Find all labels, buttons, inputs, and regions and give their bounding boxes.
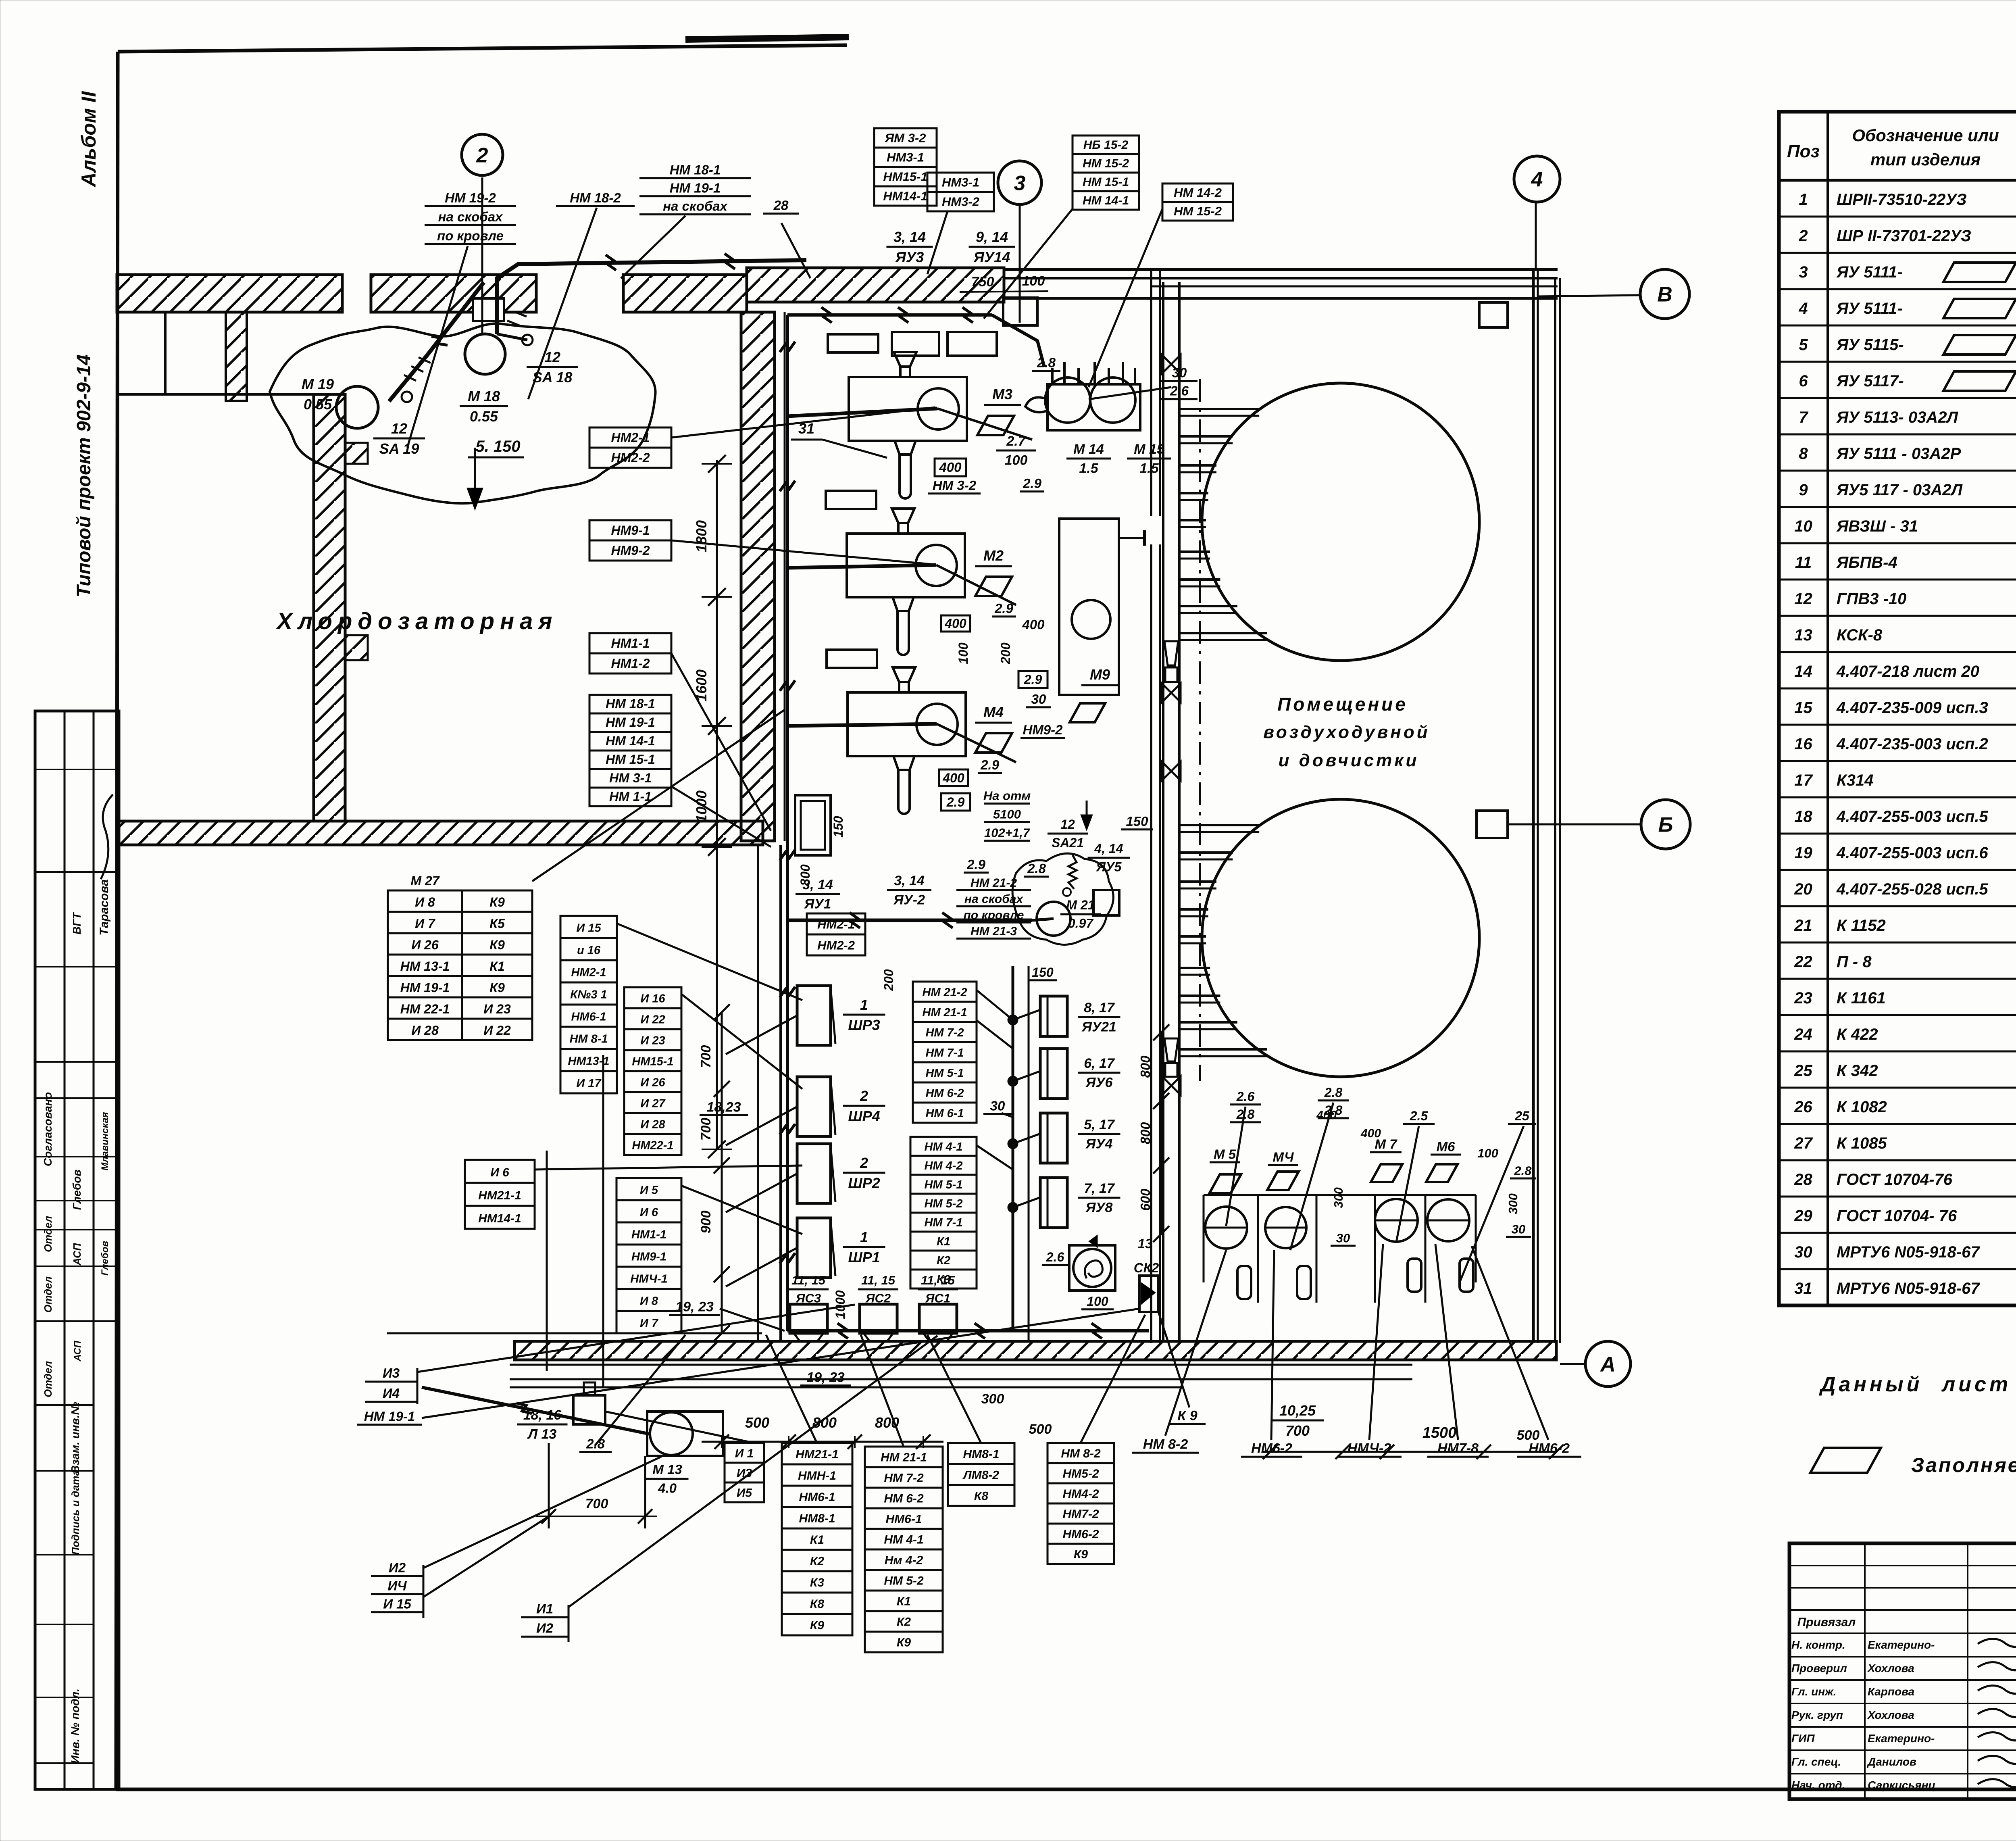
svg-text:НМ 1-1: НМ 1-1 (609, 789, 652, 804)
svg-text:НМ2-1: НМ2-1 (611, 430, 650, 445)
svg-text:Подпись и дата: Подпись и дата (69, 1470, 81, 1555)
svg-text:НМ 21-1: НМ 21-1 (881, 1451, 927, 1464)
label stack stackD (1048, 1443, 1114, 1564)
svg-text:К 1082: К 1082 (1837, 1098, 1887, 1116)
label stack 18,23 (700, 1099, 748, 1115)
cabinet ШР4 (797, 1077, 835, 1136)
label stack НМ21-2 stack (956, 876, 1031, 938)
tank 2 (1202, 799, 1479, 1077)
svg-text:22: 22 (1794, 953, 1812, 971)
wall pier leg 1 (226, 312, 247, 401)
svg-text:700: 700 (698, 1045, 714, 1068)
svg-text:2.6: 2.6 (1046, 1250, 1064, 1264)
label stack НМ7-2 s (1427, 1441, 1489, 1457)
svg-text:1800: 1800 (693, 520, 710, 553)
svg-text:ЯУ-2: ЯУ-2 (893, 892, 925, 908)
svg-text:400: 400 (1360, 1127, 1381, 1140)
fan M19 (336, 386, 378, 428)
svg-text:НМ 14-1: НМ 14-1 (606, 734, 655, 748)
label stack НМ14-2 top (1162, 183, 1233, 221)
pump М7 (1375, 1199, 1421, 1292)
label 3,14 ЯУ1 (796, 877, 840, 912)
label stack Н16 stack (624, 987, 681, 1155)
dims 10,25 700 300 1500 500 (981, 1391, 1564, 1459)
long leader lines bottom left (417, 1305, 1139, 1607)
leader to ШР3 (726, 1015, 797, 1054)
label stack НМЧ-2 s (1337, 1441, 1402, 1457)
svg-text:100: 100 (956, 642, 971, 664)
label stack И2 ИЧ И15 stack (371, 1560, 423, 1612)
В wall box and leader (1479, 295, 1640, 327)
svg-text:ЯУ14: ЯУ14 (973, 249, 1010, 265)
svg-text:НМ 8-2: НМ 8-2 (1143, 1437, 1188, 1452)
svg-text:И 1: И 1 (735, 1447, 754, 1460)
svg-text:Н. контр.: Н. контр. (1791, 1639, 1845, 1651)
two-column table М27/К9 (388, 874, 532, 1040)
cable tray along top wall (787, 307, 1044, 367)
pump M9 (1059, 519, 1145, 695)
svg-text:НМ 7-1: НМ 7-1 (925, 1047, 964, 1059)
title block (1789, 1543, 2016, 1799)
svg-text:ГПВ3 -10: ГПВ3 -10 (1837, 590, 1906, 608)
svg-text:ШР4: ШР4 (848, 1108, 880, 1124)
label stack 28d (1510, 1164, 1536, 1178)
label stack НМ18-2 (556, 190, 635, 206)
svg-text:И 26: И 26 (411, 938, 439, 952)
svg-text:13: 13 (1794, 626, 1812, 644)
svg-text:И 6: И 6 (640, 1206, 658, 1219)
svg-text:Саркисьянц: Саркисьянц (1868, 1779, 1936, 1791)
svg-text:И 17: И 17 (576, 1077, 602, 1090)
label 2.9 box (1018, 671, 1048, 688)
riser cable pair (1008, 966, 1040, 1341)
svg-text:И2: И2 (389, 1560, 406, 1575)
svg-text:НМ 18-2: НМ 18-2 (570, 190, 621, 205)
connection box СК2 (1134, 1236, 1159, 1312)
wall connector line (118, 393, 314, 396)
svg-text:АСП: АСП (71, 1243, 83, 1266)
svg-text:10: 10 (1794, 517, 1812, 535)
label stack Н5 stack (616, 1178, 681, 1333)
svg-text:МРТУ6 N05-918-67: МРТУ6 N05-918-67 (1837, 1243, 1980, 1261)
svg-text:Заполняется при привязке: Заполняется при привязке (1911, 1454, 2016, 1476)
svg-text:Данилов: Данилов (1867, 1756, 1916, 1768)
svg-text:ЛМ8-2: ЛМ8-2 (962, 1468, 999, 1482)
svg-text:800: 800 (798, 864, 812, 886)
svg-text:НМ6-2: НМ6-2 (1251, 1441, 1292, 1456)
label stack 29a (992, 601, 1016, 617)
svg-text:2.9: 2.9 (946, 795, 965, 809)
svg-text:НМ15-1: НМ15-1 (883, 170, 927, 184)
svg-text:2: 2 (476, 144, 488, 167)
svg-text:НМ21-1: НМ21-1 (478, 1189, 521, 1202)
svg-text:14: 14 (1794, 663, 1812, 680)
svg-text:Карпова: Карпова (1868, 1685, 1914, 1698)
svg-text:НМ8-1: НМ8-1 (799, 1512, 835, 1525)
axis mark 3 (998, 161, 1041, 204)
svg-text:11, 15: 11, 15 (791, 1273, 826, 1287)
label ЯС2 (858, 1273, 898, 1305)
foundation lines below bottom wall (387, 1055, 1412, 1387)
axis 4 leader (1535, 202, 1537, 269)
label stack stackE НМ21-2 (913, 982, 977, 1123)
svg-text:НМ 5-2: НМ 5-2 (884, 1574, 924, 1588)
svg-text:НМ 3-2: НМ 3-2 (933, 478, 977, 493)
room label Помещение воздуходувной и довчистки (1263, 694, 1430, 770)
svg-text:ЯУ 5115-: ЯУ 5115- (1836, 336, 1904, 354)
svg-text:И4: И4 (383, 1386, 400, 1401)
pgrams bottom pumps (1210, 1174, 1241, 1193)
label М19 0.55 (294, 376, 342, 413)
label stack М5lbl (1210, 1147, 1240, 1162)
label stack К9 s (1169, 1408, 1206, 1424)
svg-text:28: 28 (773, 198, 789, 213)
svg-text:НМ 21-3: НМ 21-3 (971, 925, 1017, 938)
svg-text:4.0: 4.0 (658, 1481, 677, 1496)
svg-text:10,25: 10,25 (1279, 1402, 1316, 1419)
spring symbol (1068, 855, 1077, 889)
svg-text:13: 13 (1138, 1236, 1153, 1251)
label stack И1 И2 stack (521, 1601, 569, 1637)
label stack 30c (1331, 1231, 1356, 1246)
svg-text:и 16: и 16 (577, 944, 601, 957)
label 400 box b (939, 769, 968, 786)
svg-text:АСП: АСП (72, 1341, 83, 1361)
svg-text:М 18: М 18 (468, 388, 500, 404)
svg-text:Поз: Поз (1787, 142, 1820, 161)
pump М4b (1265, 1207, 1311, 1299)
svg-text:300: 300 (981, 1391, 1004, 1407)
svg-text:8: 8 (1799, 445, 1808, 463)
svg-text:М 5: М 5 (1214, 1147, 1236, 1162)
svg-text:НМЧ-2: НМЧ-2 (1347, 1441, 1391, 1456)
svg-text:НМЧ-1: НМЧ-1 (630, 1273, 668, 1286)
svg-text:5100: 5100 (993, 807, 1021, 821)
control cabinet ЯУ4 (1040, 1113, 1067, 1163)
svg-text:3: 3 (1799, 263, 1808, 281)
svg-text:И 22: И 22 (640, 1013, 665, 1026)
svg-text:Гл. инж.: Гл. инж. (1791, 1685, 1837, 1698)
label ШР1 (843, 1229, 885, 1266)
svg-text:НМ 15-2: НМ 15-2 (1083, 157, 1129, 170)
svg-text:400: 400 (1022, 617, 1045, 632)
svg-text:Гл. спец.: Гл. спец. (1791, 1756, 1841, 1768)
svg-text:31: 31 (798, 420, 814, 437)
svg-text:500: 500 (745, 1414, 769, 1431)
cable along bottom wall (787, 1323, 1149, 1339)
wall: left wall of chlorine room (314, 394, 345, 821)
svg-text:Млавинская: Млавинская (100, 1112, 110, 1170)
svg-text:2.7: 2.7 (1006, 434, 1026, 449)
svg-text:2.8: 2.8 (1514, 1164, 1532, 1178)
control cabinet ЯУ8 (1040, 1178, 1067, 1228)
label stack На отм 5100 (983, 788, 1031, 840)
svg-text:К1: К1 (897, 1595, 911, 1608)
label 3,14 ЯУЗ (887, 229, 933, 265)
svg-text:НМ7-8: НМ7-8 (1437, 1441, 1479, 1456)
svg-text:5: 5 (1799, 336, 1808, 354)
legend parallelogram (1810, 1448, 1881, 1473)
svg-text:М6: М6 (1437, 1139, 1455, 1154)
svg-text:1600: 1600 (693, 669, 710, 702)
svg-text:НМ 18-1: НМ 18-1 (670, 163, 721, 177)
svg-text:НМ22-1: НМ22-1 (632, 1139, 673, 1152)
svg-text:6, 17: 6, 17 (1084, 1056, 1115, 1071)
label М15 1.5 (1127, 442, 1171, 476)
svg-text:И 7: И 7 (640, 1317, 659, 1330)
leaders from bottom stacks (766, 1244, 1548, 1447)
svg-text:Инв. № подл.: Инв. № подл. (69, 1689, 81, 1764)
svg-text:НМ 6-2: НМ 6-2 (884, 1492, 924, 1505)
svg-text:1500: 1500 (1422, 1424, 1457, 1441)
svg-text:НМ8-1: НМ8-1 (963, 1447, 999, 1461)
leader to ШР1 (726, 1248, 797, 1286)
label stack stackC (948, 1443, 1014, 1506)
svg-text:НМ3-1: НМ3-1 (942, 175, 979, 190)
svg-text:К5: К5 (489, 916, 505, 931)
dimension chain 700 700 900 (698, 1004, 730, 1341)
arrow down 5100 (1081, 801, 1093, 831)
svg-text:Глебов: Глебов (71, 1170, 83, 1210)
sheet frame left border (116, 52, 118, 1789)
label 400 (935, 459, 966, 476)
svg-text:4: 4 (1798, 300, 1808, 317)
label ШР2 (843, 1155, 885, 1191)
small box (1093, 890, 1119, 915)
svg-text:Нм 4-2: Нм 4-2 (885, 1554, 923, 1567)
leader 30/26 (1089, 387, 1171, 399)
blower pumps М14 М15 (1025, 362, 1140, 430)
svg-text:И1: И1 (536, 1601, 553, 1616)
axis mark 2 (462, 134, 503, 175)
svg-text:А: А (1599, 1353, 1616, 1376)
svg-text:НМ2-1: НМ2-1 (817, 917, 855, 931)
label stack НМБ-2 s (1241, 1441, 1302, 1457)
sheet frame top border (partial) (118, 45, 847, 52)
svg-text:SA21: SA21 (1052, 836, 1084, 850)
svg-text:НМ1-1: НМ1-1 (611, 636, 650, 651)
pump М13 (647, 1412, 723, 1456)
svg-text:И2: И2 (536, 1621, 554, 1636)
svg-text:3, 14: 3, 14 (894, 873, 925, 888)
svg-text:800: 800 (875, 1414, 899, 1431)
svg-text:И 28: И 28 (411, 1023, 439, 1038)
svg-text:100: 100 (1477, 1146, 1498, 1160)
svg-text:МЧ: МЧ (1272, 1150, 1294, 1165)
svg-text:1: 1 (1799, 191, 1808, 208)
svg-text:15: 15 (1794, 699, 1812, 717)
svg-text:К 9: К 9 (1177, 1408, 1197, 1423)
label stack НМ19-1 s (357, 1409, 422, 1424)
label ЯУ21 (1078, 1000, 1120, 1035)
label stack И3 И4 (365, 1366, 417, 1402)
pump unit М2 (820, 491, 965, 655)
axis mark В (1640, 269, 1689, 319)
svg-text:НМ 7-1: НМ 7-1 (924, 1216, 962, 1229)
svg-text:НМ 15-1: НМ 15-1 (606, 752, 655, 767)
svg-text:ЯУ 5111-: ЯУ 5111- (1836, 263, 1903, 281)
power box ЯС3 (790, 1304, 827, 1341)
svg-text:СК2: СК2 (1134, 1260, 1159, 1275)
svg-text:ЯУ3: ЯУ3 (895, 249, 924, 265)
wall: bottom band of chlorine room (117, 821, 763, 845)
label stack 19,23c (669, 1299, 720, 1315)
svg-text:ЯУ 5117-: ЯУ 5117- (1836, 372, 1904, 390)
svg-text:16: 16 (1794, 735, 1812, 753)
svg-text:К314: К314 (1837, 771, 1873, 789)
svg-text:К3: К3 (810, 1576, 824, 1589)
vertical dimension chain 1800 1600 1000 (693, 455, 732, 1158)
label stack НМ8-2 s (1132, 1437, 1199, 1453)
svg-text:700: 700 (1285, 1422, 1310, 1439)
label 2.7/100 (996, 434, 1036, 468)
label stack 29b (978, 757, 1002, 773)
power box ЯС1 (919, 1304, 957, 1341)
label ЯС1 (918, 1273, 958, 1305)
svg-text:НМ14-1: НМ14-1 (883, 189, 927, 203)
svg-text:150: 150 (1126, 814, 1148, 829)
svg-text:4, 14: 4, 14 (1094, 841, 1123, 856)
label stack 2.8b (1032, 355, 1060, 371)
label stack 19,23b (800, 1370, 851, 1385)
pump М6 (1427, 1199, 1473, 1292)
svg-text:Екатерино-: Екатерино- (1868, 1639, 1935, 1651)
dark scan segment on top border (685, 37, 849, 40)
label stack НМ1-1 НМ1-2 (589, 633, 671, 673)
svg-text:0.55: 0.55 (304, 396, 332, 413)
svg-text:Отдел: Отдел (42, 1276, 54, 1313)
svg-text:2: 2 (860, 1088, 868, 1104)
svg-text:НМ 4-1: НМ 4-1 (884, 1533, 923, 1547)
svg-text:И 26: И 26 (640, 1076, 665, 1089)
label 10,25 700 (1271, 1402, 1324, 1439)
svg-text:НМ 8-1: НМ 8-1 (569, 1033, 608, 1046)
svg-text:Б: Б (1658, 813, 1673, 837)
svg-text:26: 26 (1794, 1098, 1812, 1116)
svg-text:К 1161: К 1161 (1837, 989, 1886, 1007)
svg-text:4.407-235-003 исп.2: 4.407-235-003 исп.2 (1836, 735, 1988, 753)
air main pipe (1162, 282, 1181, 1341)
svg-text:2.8: 2.8 (1324, 1085, 1343, 1100)
svg-text:НМ 13-1: НМ 13-1 (400, 959, 450, 974)
svg-text:НМ 21-2: НМ 21-2 (971, 876, 1017, 890)
svg-text:К8: К8 (810, 1597, 824, 1611)
svg-text:400: 400 (944, 616, 966, 631)
svg-text:12: 12 (391, 420, 407, 437)
label ШР4 (843, 1088, 885, 1124)
wall: blower room top band (1004, 269, 1558, 298)
label М14 1.5 (1066, 442, 1111, 476)
label М3 (984, 386, 1021, 405)
label stack НМ2-1 НМ2-2 b (807, 913, 865, 955)
svg-text:по кровле: по кровле (437, 228, 504, 243)
svg-text:4.407-218 лист 20: 4.407-218 лист 20 (1836, 663, 1979, 680)
label 12 SA18 (527, 349, 578, 386)
label stack stackB (865, 1447, 943, 1652)
svg-text:Тарасова: Тарасова (98, 879, 111, 935)
svg-text:И 23: И 23 (640, 1034, 665, 1047)
svg-text:Рук. груп: Рук. груп (1791, 1709, 1843, 1721)
svg-text:600: 600 (1138, 1188, 1153, 1211)
pump М21 cloud (1012, 853, 1113, 944)
svg-text:30: 30 (1512, 1222, 1525, 1236)
svg-text:НМ6-2: НМ6-2 (1529, 1441, 1570, 1456)
svg-text:НМ13-1: НМ13-1 (568, 1055, 609, 1068)
label stack 2.9a (1020, 476, 1044, 492)
svg-text:В: В (1657, 283, 1672, 306)
svg-text:НМ 7-2: НМ 7-2 (884, 1472, 924, 1485)
svg-text:НМ 6-1: НМ 6-1 (925, 1107, 964, 1120)
label М13 4.0 (646, 1462, 689, 1496)
svg-text:НМ9-1: НМ9-1 (631, 1251, 666, 1263)
svg-text:НМ 14-2: НМ 14-2 (1174, 186, 1222, 200)
label М2 (975, 547, 1012, 566)
label stack Н6 stack (465, 1160, 535, 1229)
svg-text:Типовой проект 902-9-14: Типовой проект 902-9-14 (73, 354, 95, 597)
svg-text:НМ 4-2: НМ 4-2 (924, 1159, 962, 1172)
svg-text:К8: К8 (974, 1489, 988, 1503)
label stack М1 И3 И5 (725, 1443, 764, 1502)
svg-text:Привязал: Привязал (1797, 1616, 1856, 1629)
label ЯУ4 (1078, 1117, 1120, 1152)
leader to ШР4 (726, 1107, 797, 1145)
svg-text:ШРII-73510-22УЗ: ШРII-73510-22УЗ (1837, 191, 1967, 208)
svg-text:Помещение: Помещение (1277, 694, 1408, 715)
svg-text:ЯБПВ-4: ЯБПВ-4 (1836, 554, 1897, 571)
svg-text:НБ 15-2: НБ 15-2 (1083, 138, 1129, 152)
svg-text:19: 19 (1794, 844, 1812, 862)
label stack Н15 stack (560, 916, 617, 1093)
svg-text:НМ 6-2: НМ 6-2 (925, 1087, 964, 1100)
svg-text:НМ1-2: НМ1-2 (611, 656, 650, 671)
svg-text:Взам. инв.№: Взам. инв.№ (69, 1402, 81, 1473)
svg-text:НМ 22-1: НМ 22-1 (400, 1002, 450, 1016)
label stack 28c (1024, 861, 1049, 877)
svg-text:800: 800 (1138, 1122, 1153, 1145)
svg-text:НМ7-2: НМ7-2 (1062, 1507, 1099, 1521)
label stack 150b (1029, 965, 1057, 980)
svg-text:2.6: 2.6 (1236, 1089, 1255, 1104)
svg-text:воздуходувной: воздуходувной (1263, 722, 1430, 742)
svg-text:ЯМ 3-2: ЯМ 3-2 (885, 131, 926, 145)
label stack 2.6 2.8 (1230, 1089, 1261, 1122)
svg-text:НМ 19-1: НМ 19-1 (400, 980, 450, 995)
svg-text:К9: К9 (810, 1619, 824, 1632)
svg-text:НМ 3-1: НМ 3-1 (609, 771, 652, 785)
svg-text:1.5: 1.5 (1139, 461, 1159, 476)
svg-text:400: 400 (939, 460, 962, 475)
svg-text:4.407-255-003 исп.6: 4.407-255-003 исп.6 (1836, 844, 1989, 862)
pump М21 (1037, 902, 1070, 936)
svg-text:17: 17 (1794, 771, 1813, 789)
svg-text:11, 15: 11, 15 (921, 1273, 955, 1287)
dim chain 800 800 600 (1138, 1024, 1169, 1242)
svg-text:М 15: М 15 (1134, 442, 1165, 457)
svg-text:4.407-255-003 исп.5: 4.407-255-003 исп.5 (1836, 808, 1989, 826)
svg-text:18,23: 18,23 (706, 1099, 741, 1115)
svg-text:11: 11 (1795, 554, 1812, 571)
svg-text:НМ 15-1: НМ 15-1 (1083, 175, 1129, 189)
mark 5.150 with arrow (467, 438, 524, 510)
label stack stackF НМ4-1 (910, 1137, 977, 1288)
svg-text:9: 9 (1799, 481, 1808, 499)
leaders top stacks (927, 209, 1162, 387)
svg-text:К 1085: К 1085 (1837, 1134, 1887, 1152)
equipment cloud outline (270, 323, 656, 503)
svg-text:М 27: М 27 (410, 874, 440, 888)
label stack НМ3-1 НМ3-2 top (927, 173, 994, 211)
svg-text:0.97: 0.97 (1068, 916, 1094, 931)
